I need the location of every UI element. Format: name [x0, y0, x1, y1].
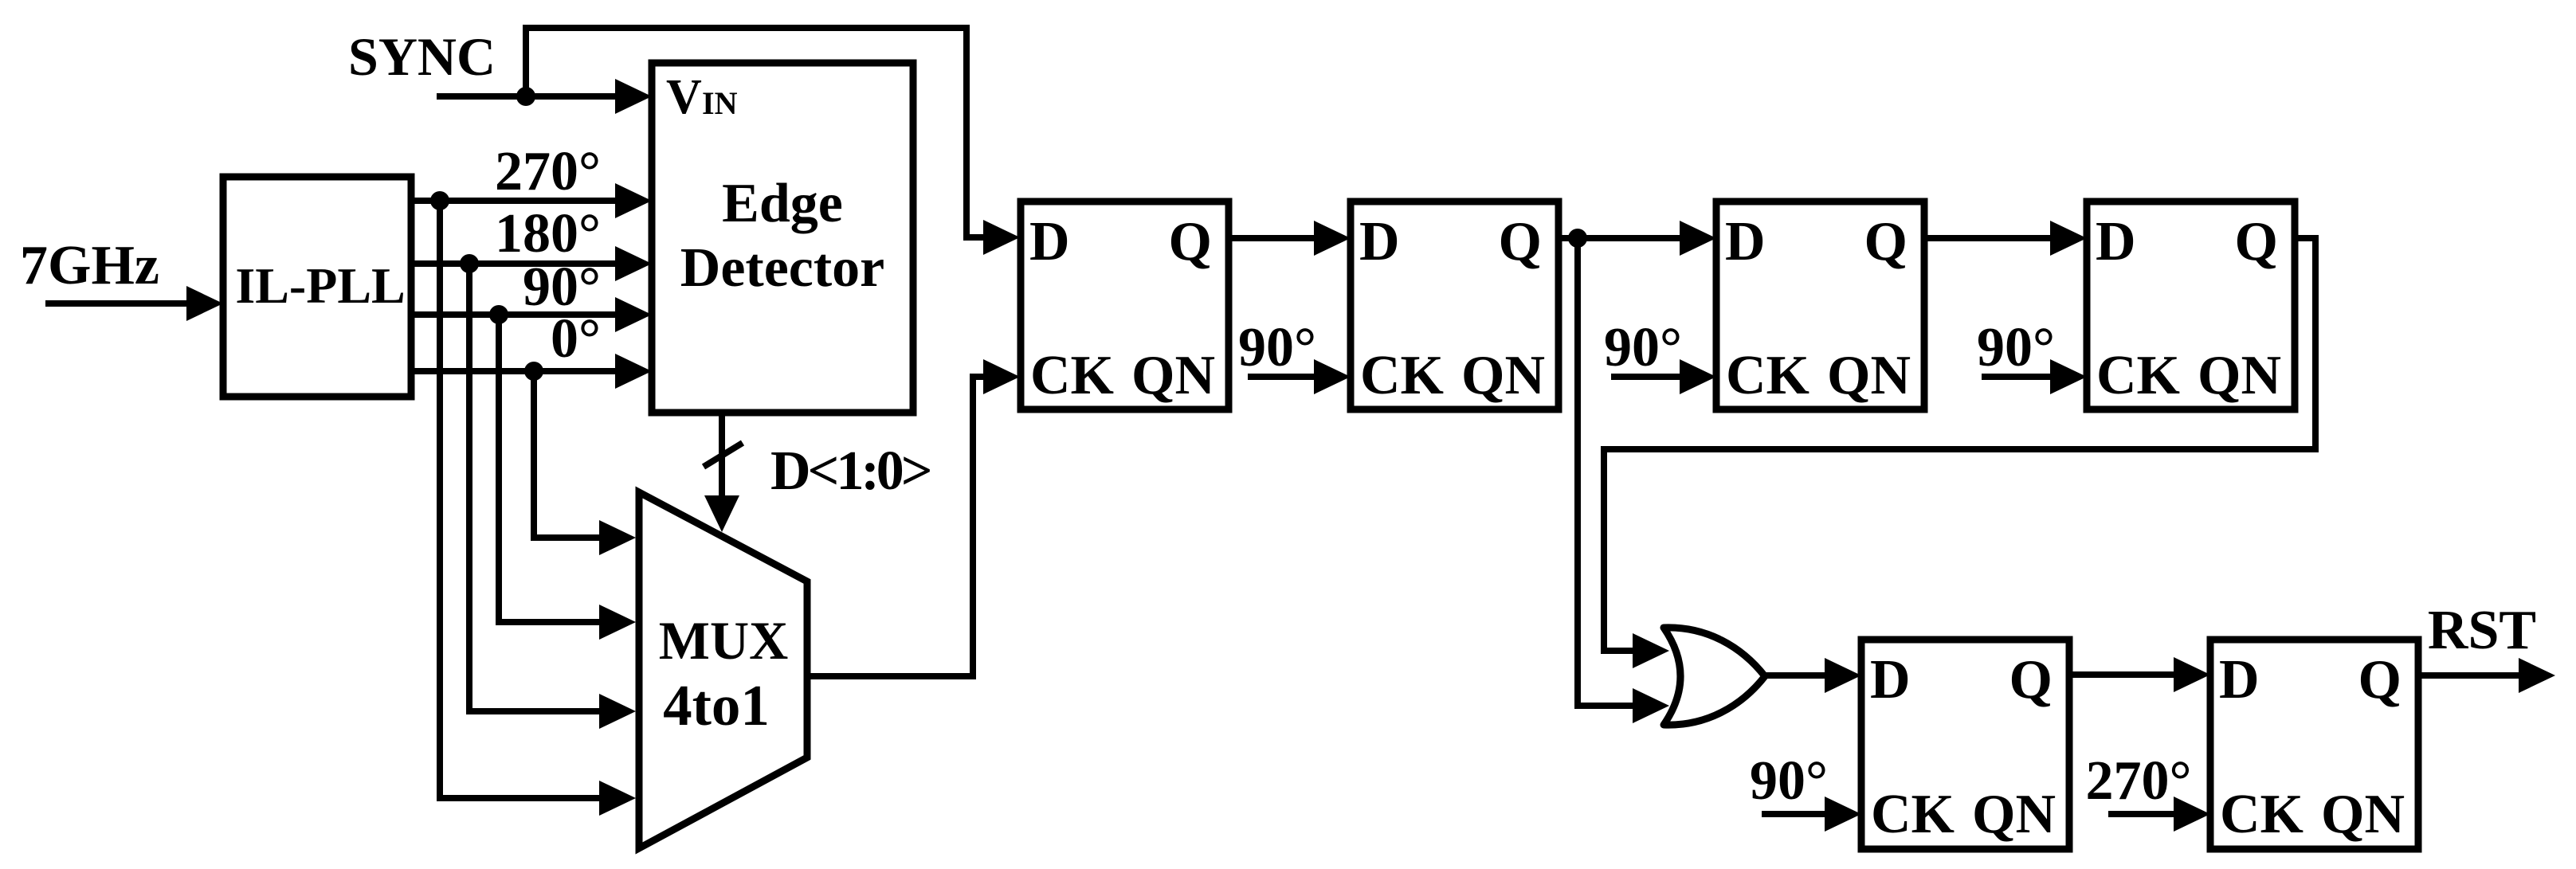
svg-text:CK: CK [1360, 345, 1444, 406]
svg-text:D: D [1359, 211, 1400, 272]
wire FF2 CK [1248, 374, 1315, 380]
svg-text:QN: QN [1827, 345, 1911, 406]
svg-text:180°: 180° [495, 203, 601, 264]
svg-text:CK: CK [1871, 784, 1955, 845]
wire FF5 CK [1762, 811, 1826, 817]
svg-text:4to1: 4to1 [663, 673, 770, 738]
svg-text:D: D [1870, 649, 1911, 710]
wire FF2 Q tap to OR [1578, 238, 1634, 706]
wire FF3 Q to FF4 D [1923, 235, 2052, 241]
wire RST output [2418, 672, 2520, 679]
bus D<1:0> [719, 413, 725, 497]
wire 90deg [411, 311, 618, 318]
svg-text:270°: 270° [495, 141, 601, 202]
svg-text:Q: Q [2358, 649, 2402, 710]
svg-text:QN: QN [2321, 784, 2405, 845]
junction dot 0deg [524, 362, 543, 381]
svg-text:SYNC: SYNC [348, 26, 496, 87]
wire FF4 Q feedback [1604, 238, 2315, 651]
or-gate U1 [1664, 628, 1765, 725]
junction dot 180deg [460, 254, 479, 273]
svg-text:Edge: Edge [722, 173, 843, 234]
svg-text:90°: 90° [1604, 317, 1682, 378]
wire SYNC input [437, 93, 618, 100]
mux 4to1 body [639, 492, 807, 848]
svg-text:QN: QN [2198, 345, 2281, 406]
svg-text:QN: QN [1131, 345, 1215, 406]
wire 180deg [411, 260, 618, 267]
svg-text:IN: IN [702, 85, 738, 121]
svg-text:D<1:0>: D<1:0> [770, 440, 931, 502]
wire SYNC to top rail [526, 28, 985, 237]
wire FF6 CK [2108, 811, 2175, 817]
svg-text:CK: CK [1030, 345, 1114, 406]
svg-text:90°: 90° [1750, 750, 1828, 812]
svg-text:MUX: MUX [659, 610, 788, 671]
svg-text:Q: Q [1499, 211, 1542, 272]
svg-text:Detector: Detector [680, 237, 884, 299]
wire OR out to FF5 D [1765, 672, 1826, 679]
svg-text:90°: 90° [1238, 317, 1316, 378]
svg-text:Q: Q [2235, 211, 2278, 272]
svg-text:D: D [2219, 649, 2260, 710]
svg-text:QN: QN [1461, 345, 1545, 406]
svg-text:7GHz: 7GHz [20, 235, 159, 296]
wire FF3 CK [1611, 374, 1681, 380]
junction dot 90deg [489, 305, 508, 324]
flip-flop FF5 [1861, 640, 2069, 849]
block Edge Detector [652, 63, 913, 413]
svg-text:D: D [2096, 211, 2136, 272]
svg-text:CK: CK [1726, 345, 1809, 406]
flip-flop FF6 [2210, 640, 2418, 849]
svg-text:Q: Q [2009, 649, 2053, 710]
wire 0deg [411, 368, 618, 374]
svg-text:Q: Q [1169, 211, 1212, 272]
svg-text:Q: Q [1864, 211, 1907, 272]
flip-flop FF2 [1351, 202, 1559, 409]
svg-text:90°: 90° [1977, 317, 2055, 378]
wire FF4 CK [1982, 374, 2052, 380]
wire FF1 Q to FF2 D [1229, 235, 1315, 241]
bus slash mark [704, 443, 743, 467]
wire 90deg tap to mux in1 [499, 315, 602, 622]
flip-flop FF1 [1021, 202, 1229, 409]
wire 7GHz input [45, 300, 191, 307]
block IL-PLL [223, 177, 411, 397]
wire 0deg tap to mux in0 [534, 371, 602, 538]
wire FF5 Q to FF6 D [2069, 671, 2175, 678]
svg-text:CK: CK [2220, 784, 2304, 845]
wire 180deg tap to mux in2 [469, 264, 602, 711]
flip-flop FF3 [1716, 202, 1924, 409]
svg-text:0°: 0° [551, 308, 601, 370]
junction dot 270deg [430, 191, 449, 210]
junction dot FF2 Q [1568, 229, 1587, 248]
flip-flop FF4 [2087, 202, 2295, 409]
svg-text:D: D [1029, 211, 1070, 272]
wire 270deg [411, 198, 618, 204]
svg-text:RST: RST [2428, 600, 2536, 661]
svg-text:IL-PLL: IL-PLL [235, 257, 405, 314]
svg-text:V: V [666, 70, 702, 124]
svg-text:D: D [1725, 211, 1766, 272]
junction dot SYNC [516, 87, 535, 106]
svg-text:QN: QN [1972, 784, 2056, 845]
wire FF2 Q to FF3 D [1557, 235, 1681, 241]
wire 270deg tap to mux in3 [440, 201, 602, 798]
svg-text:CK: CK [2096, 345, 2180, 406]
wire mux out to FF1 CK [807, 377, 985, 676]
